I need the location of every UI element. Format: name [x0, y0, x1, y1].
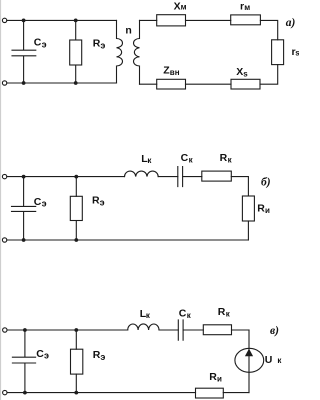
- svg-text:м: м: [244, 3, 250, 12]
- wire top (a): [7, 19, 117, 21]
- wire C to R (b): [183, 176, 202, 178]
- svg-text:к: к: [189, 155, 194, 164]
- svg-text:s: s: [295, 49, 299, 58]
- wire top right loop (a): [140, 19, 157, 21]
- wire Rk to corner (v): [232, 329, 250, 331]
- svg-text:к: к: [277, 356, 282, 365]
- resistor rm box: [231, 15, 261, 25]
- svg-text:э: э: [100, 197, 105, 207]
- svg-text:R: R: [218, 306, 226, 318]
- resistor Xm box: [157, 15, 186, 26]
- svg-text:n: n: [125, 25, 131, 37]
- arrow head: [245, 349, 253, 357]
- svg-text:C: C: [34, 37, 42, 49]
- svg-text:C: C: [34, 196, 42, 208]
- terminal top-left (b): [2, 174, 6, 178]
- capacitor C3 (a): [12, 20, 36, 83]
- svg-text:к: к: [146, 311, 151, 320]
- svg-text:к: к: [147, 156, 152, 165]
- resistor Ri box (v): [196, 388, 224, 398]
- wire C to R (v): [183, 329, 203, 331]
- svg-text:и: и: [217, 374, 222, 383]
- node dot R bottom (b): [74, 238, 78, 242]
- node dot cap top (v): [23, 328, 27, 332]
- resistor R3 (a): [75, 20, 77, 83]
- wire bottom (a): [7, 82, 117, 84]
- resistor Xs box: [231, 79, 260, 89]
- svg-text:C: C: [36, 348, 44, 360]
- node dot R top (b): [74, 175, 78, 179]
- wire rm to corner and down: [260, 20, 277, 39]
- svg-text:э: э: [100, 40, 105, 50]
- svg-text:X: X: [174, 0, 181, 12]
- capacitor Ck (v): [178, 320, 183, 340]
- wire top (b): [7, 176, 125, 178]
- wire Xm to rm: [186, 19, 231, 21]
- wire bottom (b): [7, 239, 249, 241]
- resistor R3 (b): [75, 177, 77, 240]
- svg-text:а): а): [286, 17, 296, 29]
- svg-text:э: э: [42, 199, 47, 209]
- resistor Ri (b): [242, 196, 254, 221]
- svg-text:U: U: [265, 354, 273, 366]
- terminal bottom-left: [2, 81, 6, 85]
- node dot R top (v): [74, 328, 78, 332]
- terminal bottom-left (v): [3, 390, 7, 394]
- node dot cap top (b): [22, 175, 26, 179]
- svg-text:б): б): [261, 176, 271, 188]
- wire Ri to bottom (b): [247, 221, 249, 240]
- resistor rs box: [272, 40, 284, 65]
- svg-text:вн: вн: [170, 68, 180, 77]
- svg-text:и: и: [265, 206, 270, 215]
- resistor Rk box (v): [203, 325, 231, 335]
- node dot R bottom (v): [74, 391, 78, 395]
- svg-text:э: э: [44, 351, 49, 361]
- wire Zvn to winding: [140, 83, 157, 85]
- node dot R top (a): [74, 19, 78, 23]
- svg-text:к: к: [187, 311, 192, 320]
- node dot cap top (a): [22, 19, 26, 23]
- capacitor C3 (b): [12, 177, 36, 240]
- resistor Rk box (b): [202, 171, 232, 181]
- wire Rk to corner (b): [231, 177, 248, 196]
- terminal top-left (v): [3, 328, 7, 332]
- node dot cap bottom (a): [22, 81, 26, 85]
- node dot R bottom (a): [74, 81, 78, 85]
- wire bottom left (v): [7, 392, 196, 394]
- svg-text:C: C: [181, 152, 189, 164]
- svg-text:э: э: [100, 352, 105, 362]
- svg-text:R: R: [209, 371, 217, 383]
- svg-text:э: э: [42, 39, 47, 49]
- wire L to C (v): [159, 329, 178, 331]
- svg-text:в): в): [270, 325, 279, 337]
- wire L to C (b): [158, 176, 178, 178]
- svg-text:X: X: [236, 66, 243, 78]
- svg-text:м: м: [181, 3, 187, 12]
- resistor Zvn box: [157, 79, 186, 89]
- source circle Uk: [235, 348, 264, 372]
- transformer primary winding: [117, 20, 123, 83]
- capacitor Ck (b): [178, 167, 183, 187]
- page left edge line: [0, 0, 2, 400]
- wire Xs to Zvn: [186, 83, 232, 85]
- svg-text:к: к: [228, 155, 233, 164]
- svg-text:s: s: [243, 70, 248, 79]
- capacitor C3 (v): [12, 330, 35, 393]
- resistor R3 (v): [75, 330, 77, 393]
- node dot cap bottom (b): [22, 238, 26, 242]
- wire top (v): [7, 329, 128, 331]
- transformer secondary winding: [134, 20, 140, 84]
- terminal bottom-left (b): [2, 238, 6, 242]
- svg-text:R: R: [257, 202, 265, 214]
- wire through source: [248, 330, 250, 393]
- terminal top-left: [2, 18, 6, 22]
- svg-text:к: к: [226, 309, 231, 318]
- inductor Lk (b): [125, 171, 159, 177]
- wire Ri to corner (v): [223, 392, 249, 394]
- svg-text:R: R: [220, 152, 228, 164]
- inductor Lk (v): [128, 324, 159, 330]
- wire rs down to corner: [260, 65, 278, 85]
- svg-text:C: C: [179, 307, 187, 319]
- node dot cap bottom (v): [23, 391, 27, 395]
